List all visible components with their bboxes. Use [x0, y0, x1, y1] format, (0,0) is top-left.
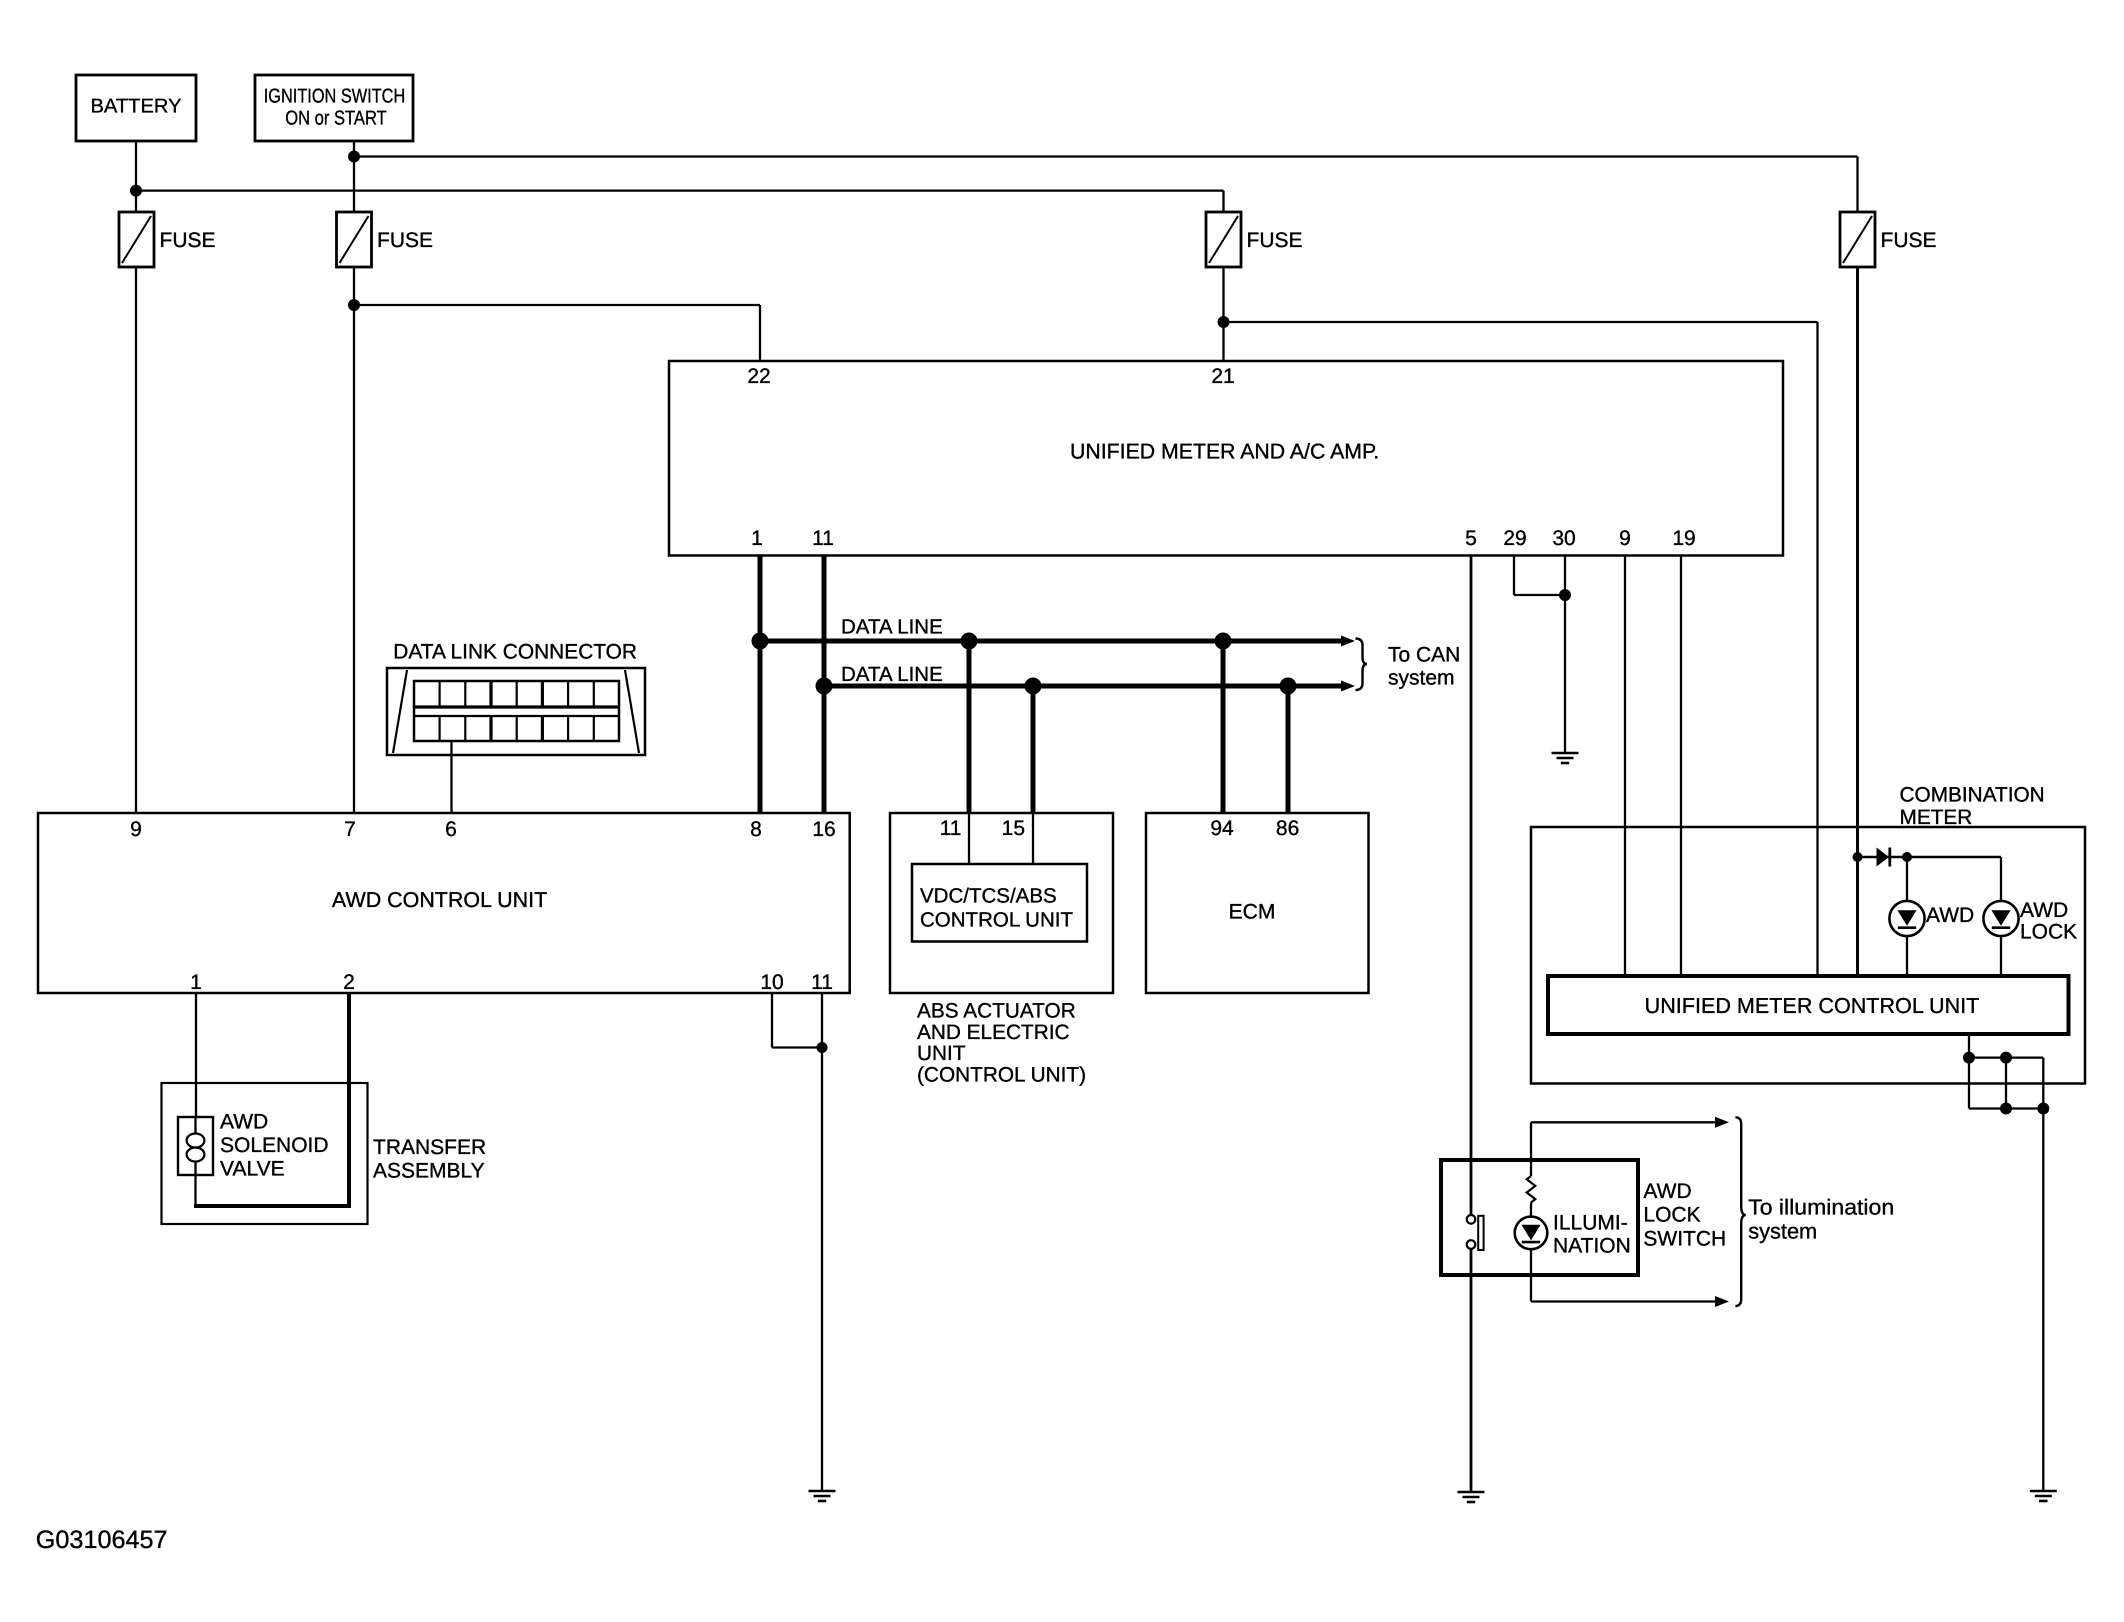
svg-text:CONTROL UNIT: CONTROL UNIT	[920, 909, 1073, 932]
svg-text:G03106457: G03106457	[36, 1526, 168, 1554]
svg-text:FUSE: FUSE	[377, 229, 433, 252]
svg-text:11: 11	[812, 527, 834, 550]
svg-text:6: 6	[445, 818, 457, 841]
svg-text:To CAN: To CAN	[1388, 644, 1460, 667]
svg-text:TRANSFER: TRANSFER	[373, 1136, 486, 1159]
svg-text:ASSEMBLY: ASSEMBLY	[373, 1160, 485, 1183]
svg-text:5: 5	[1465, 527, 1477, 550]
svg-text:system: system	[1388, 667, 1455, 690]
svg-text:IGNITION SWITCH: IGNITION SWITCH	[264, 86, 406, 108]
svg-text:15: 15	[1002, 817, 1025, 840]
svg-text:8: 8	[750, 818, 762, 841]
svg-text:1: 1	[751, 527, 763, 550]
svg-text:2: 2	[343, 971, 355, 994]
svg-text:9: 9	[1619, 527, 1631, 550]
svg-text:VALVE: VALVE	[220, 1158, 285, 1181]
svg-text:FUSE: FUSE	[1881, 229, 1937, 252]
svg-text:UNIFIED METER CONTROL UNIT: UNIFIED METER CONTROL UNIT	[1645, 993, 1980, 1018]
svg-text:AWD: AWD	[1643, 1180, 1691, 1203]
svg-text:21: 21	[1211, 365, 1234, 388]
svg-text:SWITCH: SWITCH	[1643, 1227, 1726, 1250]
svg-text:METER: METER	[1900, 806, 1973, 829]
svg-text:COMBINATION: COMBINATION	[1900, 784, 2045, 807]
svg-text:16: 16	[812, 818, 835, 841]
svg-text:LOCK: LOCK	[2020, 920, 2077, 943]
svg-text:UNIT: UNIT	[917, 1042, 966, 1065]
svg-text:AWD: AWD	[220, 1111, 268, 1134]
svg-text:7: 7	[344, 818, 356, 841]
svg-text:(CONTROL UNIT): (CONTROL UNIT)	[917, 1063, 1086, 1086]
svg-text:FUSE: FUSE	[160, 229, 216, 252]
svg-text:AWD: AWD	[2020, 899, 2068, 922]
svg-text:AWD: AWD	[1926, 904, 1974, 927]
svg-text:NATION: NATION	[1553, 1235, 1631, 1258]
svg-text:ILLUMI-: ILLUMI-	[1553, 1212, 1628, 1235]
svg-text:To illumination: To illumination	[1748, 1195, 1894, 1220]
svg-text:VDC/TCS/ABS: VDC/TCS/ABS	[920, 885, 1057, 908]
svg-text:AWD CONTROL UNIT: AWD CONTROL UNIT	[332, 888, 547, 912]
svg-text:UNIFIED METER AND A/C AMP.: UNIFIED METER AND A/C AMP.	[1070, 440, 1379, 464]
svg-text:AND ELECTRIC: AND ELECTRIC	[917, 1021, 1070, 1044]
svg-text:9: 9	[130, 818, 142, 841]
svg-text:FUSE: FUSE	[1247, 229, 1303, 252]
svg-text:1: 1	[190, 971, 202, 994]
svg-text:11: 11	[940, 817, 962, 840]
svg-text:10: 10	[760, 971, 783, 994]
svg-text:29: 29	[1503, 527, 1526, 550]
svg-text:30: 30	[1552, 527, 1575, 550]
svg-text:94: 94	[1210, 817, 1234, 840]
svg-text:ECM: ECM	[1229, 901, 1276, 924]
svg-text:system: system	[1748, 1219, 1817, 1244]
svg-text:SOLENOID: SOLENOID	[220, 1134, 329, 1157]
svg-text:ABS ACTUATOR: ABS ACTUATOR	[917, 1000, 1076, 1023]
svg-text:DATA LINE: DATA LINE	[841, 616, 943, 639]
svg-text:22: 22	[747, 365, 770, 388]
svg-text:LOCK: LOCK	[1643, 1204, 1700, 1227]
svg-text:DATA LINK CONNECTOR: DATA LINK CONNECTOR	[393, 641, 637, 664]
svg-text:86: 86	[1276, 817, 1299, 840]
svg-text:DATA LINE: DATA LINE	[841, 663, 943, 686]
svg-text:BATTERY: BATTERY	[91, 96, 182, 118]
svg-text:11: 11	[811, 971, 833, 994]
svg-text:ON or START: ON or START	[285, 108, 387, 130]
svg-text:19: 19	[1672, 527, 1695, 550]
